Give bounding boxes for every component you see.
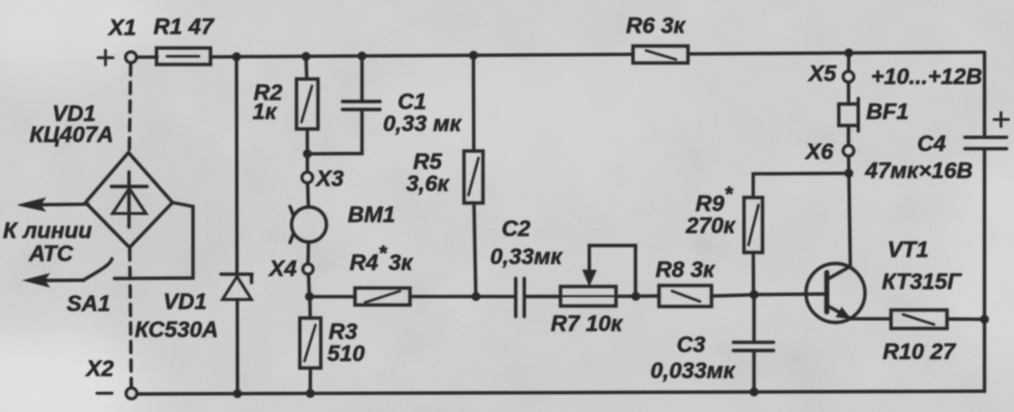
svg-text:Х5: Х5: [807, 61, 837, 86]
wire junction to C2: [476, 295, 514, 298]
wire bridge right vertex to switch: [115, 203, 194, 279]
wire right rail upper: [983, 52, 986, 135]
capacitor C1: [343, 102, 381, 110]
junction node zener bottom: [233, 389, 242, 398]
wire top rail left segment: [137, 55, 158, 59]
svg-text:47мк×16В: 47мк×16В: [864, 158, 973, 183]
wire zener rail lower: [236, 300, 240, 394]
wire dashed bridge to X2: [130, 249, 132, 387]
wire C2 to R7: [526, 295, 561, 298]
svg-text:270к: 270к: [685, 213, 737, 238]
wire junction to R4: [310, 295, 356, 298]
resistor R10: [891, 310, 947, 329]
wire top rail middle segment: [211, 54, 634, 57]
svg-text:BF1: BF1: [866, 99, 909, 124]
wire BF1 to X6: [847, 126, 850, 146]
svg-text:+10...+12В: +10...+12В: [871, 64, 982, 89]
wire bottom rail: [132, 391, 985, 394]
switch SA1 lever: [83, 259, 112, 281]
plus polarity mark at X1: [98, 50, 113, 65]
svg-text:Х4: Х4: [267, 256, 297, 281]
arrow to line (К линии АТС): [18, 198, 88, 211]
svg-text:Х3: Х3: [314, 166, 344, 191]
wire R5 to junction: [474, 203, 476, 295]
wire junction to C3: [752, 295, 755, 341]
wire right rail lower: [983, 151, 986, 392]
junction node R8/R9/C3/base: [750, 290, 759, 299]
wire X5 to BF1: [847, 82, 850, 104]
resistor R4: [355, 288, 410, 305]
junction node R4/R5/C2: [472, 292, 481, 301]
wire R4 to junction at R5: [410, 295, 474, 298]
junction node R7 wiper: [631, 292, 640, 301]
capacitor C4: [965, 137, 1007, 148]
wire R8 to junction: [712, 295, 754, 296]
resistor R8: [659, 286, 712, 307]
svg-text:КТ315Г: КТ315Г: [882, 269, 962, 294]
wire dashed X1 to bridge: [129, 64, 130, 151]
svg-text:R6 3к: R6 3к: [626, 13, 687, 38]
wire junction to R9: [752, 253, 756, 295]
wire C1 to junction: [309, 111, 362, 154]
wire R3 to bottom: [309, 368, 313, 393]
wire X6 to junction: [847, 156, 851, 172]
zener diode VD1 KC530A: [221, 274, 252, 299]
svg-text:VD1: VD1: [163, 289, 207, 314]
resistor R9: [744, 198, 763, 253]
wire junction to VT1 base: [754, 292, 825, 296]
svg-text:Х6: Х6: [804, 139, 834, 164]
svg-text:510: 510: [327, 341, 365, 366]
wire junction to VT1 collector: [849, 173, 850, 265]
svg-text:0,033мк: 0,033мк: [650, 358, 736, 383]
svg-text:R1 47: R1 47: [153, 14, 215, 39]
potentiometer R7 wiper: [583, 246, 636, 295]
svg-text:К линии: К линии: [3, 218, 92, 243]
svg-text:C3: C3: [677, 332, 706, 357]
wire VT1 emitter to R10: [850, 317, 891, 320]
svg-text:SA1: SA1: [67, 291, 111, 316]
potentiometer R7: [561, 287, 617, 307]
resistor R5: [464, 151, 483, 203]
transistor VT1: [806, 264, 865, 323]
svg-text:АТС: АТС: [28, 241, 74, 266]
switch SA1 arrow: [24, 274, 84, 287]
svg-text:КЦ407А: КЦ407А: [29, 122, 113, 147]
resistor R6: [633, 46, 688, 63]
svg-text:0,33мк: 0,33мк: [490, 244, 563, 269]
wire R10 to right rail: [947, 317, 984, 321]
resistor R3: [300, 318, 321, 368]
svg-text:3,6к: 3,6к: [406, 171, 450, 196]
wire junction to R3: [308, 297, 312, 318]
junction node zener top: [232, 52, 241, 61]
wire top to C1: [360, 56, 363, 100]
junction node X6/R9/collector: [844, 169, 853, 178]
wire top to R2: [304, 56, 308, 79]
plus polarity mark at C4: [994, 113, 1009, 127]
diode symbol inside bridge: [112, 172, 148, 227]
wire top to X5: [847, 53, 851, 72]
wire R7 to R8: [616, 294, 659, 298]
wire X3 to BM1: [306, 183, 310, 207]
wire junction to X3: [306, 155, 309, 172]
resistor R1: [157, 48, 211, 65]
earphone BF1: [839, 99, 859, 132]
wire top to R5: [472, 55, 476, 151]
wire X4 to junction: [307, 274, 311, 295]
junction node above X3: [303, 149, 312, 158]
terminal X5: [843, 72, 853, 82]
wire zener rail upper: [235, 57, 239, 273]
svg-text:C2: C2: [502, 216, 531, 241]
wire R9 to X6 node: [753, 173, 849, 197]
capacitor C2: [516, 279, 525, 317]
wire BM1 to X4: [306, 242, 310, 264]
terminal X2: [126, 388, 137, 399]
wire C3 to bottom: [752, 352, 755, 392]
microphone BM1: [290, 207, 327, 243]
svg-text:0,33 мк: 0,33 мк: [383, 111, 463, 136]
resistor R2: [297, 79, 319, 129]
junction node C1 top: [358, 52, 367, 61]
terminal X6: [843, 146, 853, 156]
svg-text:1к: 1к: [253, 99, 279, 124]
terminal X4: [303, 264, 313, 274]
svg-text:VT1: VT1: [887, 237, 928, 262]
wire top rail right segment: [688, 52, 985, 54]
junction node R2 top: [302, 52, 311, 61]
svg-text:BM1: BM1: [348, 202, 396, 227]
svg-text:C4: C4: [917, 131, 946, 156]
junction node X4/R3/R4: [305, 292, 314, 301]
capacitor C3: [734, 342, 774, 350]
junction node R5 top: [469, 51, 478, 60]
svg-text:Х2: Х2: [84, 356, 114, 381]
wire R2 to junction: [306, 129, 310, 152]
svg-text:КС530А: КС530А: [135, 317, 219, 342]
svg-text:R7 10к: R7 10к: [551, 311, 624, 336]
junction node C3 bottom: [750, 387, 759, 396]
junction node X5 top: [844, 48, 853, 57]
terminal X3: [302, 172, 312, 182]
terminal X1: [126, 52, 137, 63]
junction node R10 right: [980, 315, 989, 324]
svg-text:Х1: Х1: [107, 15, 137, 40]
junction node R3 bottom: [306, 389, 315, 398]
svg-text:R10 27: R10 27: [883, 339, 957, 364]
diode bridge VD1: [86, 153, 173, 248]
minus polarity mark at X2: [97, 392, 112, 395]
svg-text:R8 3к: R8 3к: [656, 257, 717, 282]
